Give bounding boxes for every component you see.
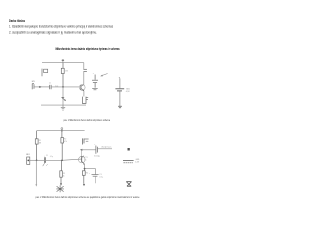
capacitor C1b	[44, 157, 45, 163]
resistor R2b	[61, 131, 64, 161]
svg-text:R4: R4	[86, 173, 88, 175]
svg-text:2. susipažinti su analoginiais: 2. susipažinti su analoginiais signalais…	[9, 30, 97, 34]
arrowhead input 1	[39, 86, 41, 88]
mic branch end arrow	[35, 184, 37, 186]
svg-text:pav. 2 Mikrofoninio žemo dažni: pav. 2 Mikrofoninio žemo dažnio stiprint…	[36, 196, 141, 199]
transistor VT1	[79, 85, 85, 91]
svg-text:+: +	[89, 173, 90, 175]
capacitor C3 series	[96, 146, 98, 154]
junction base node 1	[62, 86, 64, 88]
microphone MK1b dot	[27, 160, 29, 162]
wire top rail 2	[37, 130, 85, 132]
wire node to C1b	[37, 159, 45, 161]
resistor R4b	[82, 169, 85, 184]
svg-text:4,5V: 4,5V	[135, 161, 140, 163]
transistor VT1 collector stroke	[81, 85, 84, 87]
battery GB1b	[123, 160, 134, 162]
resistor R1b	[35, 131, 38, 161]
wire collector lead 1	[83, 63, 85, 85]
svg-text:1M: 1M	[39, 143, 42, 145]
wire collector to transistor 2	[81, 150, 83, 156]
wire base 2	[46, 159, 82, 160]
resistor R3b	[60, 160, 63, 184]
headphones BF1	[82, 97, 88, 104]
microphone MK1b	[27, 157, 30, 164]
svg-text:100µ: 100µ	[99, 176, 103, 178]
transistor VT1 emitter arrow	[83, 90, 85, 92]
svg-text:0,1µ: 0,1µ	[50, 156, 53, 158]
svg-text:GB1: GB1	[126, 88, 130, 90]
diode element D1	[61, 97, 65, 100]
svg-text:1k: 1k	[63, 176, 65, 178]
junction rail2 terminal	[61, 130, 63, 132]
wire terminal tick 2	[61, 130, 63, 131]
svg-text:C1: C1	[46, 155, 48, 157]
svg-text:išėjimas: išėjimas	[101, 146, 111, 148]
R3b arrowhead down	[60, 183, 62, 185]
symbol P crystal element	[42, 69, 48, 77]
transistor VT1b emitter stroke	[82, 162, 84, 164]
terminal circle above rail 2	[61, 128, 63, 130]
wire base to ground 1	[62, 87, 64, 105]
resistor R1	[61, 63, 64, 87]
transistor VT1 base bar	[80, 85, 82, 90]
battery GB1	[115, 78, 124, 106]
junction node mid 2	[61, 159, 63, 161]
svg-text:Mikrofoninio žemo dažnio stipr: Mikrofoninio žemo dažnio stiprintuvo tyr…	[56, 47, 120, 51]
svg-text:+: +	[93, 73, 95, 75]
collector series capacitor 1	[83, 69, 87, 71]
transistor VT1b emitter arrow	[83, 163, 85, 165]
wire base 1	[51, 86, 79, 88]
battery GB1b plus mark	[128, 148, 130, 151]
transistor VT1b	[79, 156, 86, 163]
transistor VT1 emitter stroke	[81, 89, 84, 91]
wire bottom rail 1	[41, 104, 86, 106]
svg-text:Darbo tikslas: Darbo tikslas	[9, 19, 25, 23]
svg-text:BC: BC	[84, 159, 87, 161]
wire collector 2	[81, 149, 96, 151]
microphone MK1	[32, 84, 34, 90]
emitter branch arrowhead	[83, 184, 85, 186]
svg-text:pav. 1 Mikrofoninio žemo dažni: pav. 1 Mikrofoninio žemo dažnio stiprint…	[64, 119, 111, 122]
node +V terminal dot	[62, 59, 65, 61]
collector wire arrowhead 2	[80, 149, 82, 151]
svg-text:1. Išsiaiškinti vienpakopio tr: 1. Išsiaiškinti vienpakopio tranzistorin…	[9, 24, 113, 28]
capacitor C1	[50, 85, 51, 89]
svg-text:47k: 47k	[64, 141, 67, 143]
wire input 1	[34, 86, 49, 88]
capacitor C2b	[82, 138, 88, 144]
svg-text:+: +	[44, 155, 45, 157]
junction base node 2	[36, 159, 38, 161]
svg-text:M1: M1	[32, 81, 35, 83]
svg-text:100µ: 100µ	[94, 156, 100, 158]
capacitor C4	[92, 175, 99, 177]
output arrowhead 1	[100, 75, 103, 77]
svg-text:4,5V: 4,5V	[126, 91, 131, 93]
wire mic to node 2	[30, 159, 37, 161]
svg-text:MK1: MK1	[26, 154, 30, 156]
wire C4 down	[94, 177, 96, 184]
svg-text:R3: R3	[63, 173, 65, 175]
wire emitter to C4	[85, 169, 96, 175]
wire emitter 1	[83, 91, 85, 97]
ground battery 1	[118, 106, 122, 108]
wire top rail 1	[42, 62, 84, 64]
wire emitter 2	[84, 164, 86, 168]
junction emitter node 2	[84, 168, 86, 170]
input slash tail	[46, 164, 48, 165]
star ground symbol	[56, 185, 64, 192]
chassis ground X symbol	[126, 182, 131, 187]
diode D1 arrow blob	[64, 99, 66, 101]
wire +V tick	[62, 61, 64, 63]
output arrow 1	[101, 74, 107, 76]
input slash arrowhead 2	[44, 161, 46, 163]
transistor VT1b base bar	[81, 156, 83, 162]
transistor VT1b collector stroke	[82, 156, 84, 158]
wire output 2	[98, 148, 112, 150]
capacitor C2	[92, 75, 98, 90]
svg-text:C1: C1	[49, 83, 51, 85]
input slash arrow 2	[43, 162, 46, 166]
ground 1	[61, 105, 65, 110]
svg-text:+: +	[94, 144, 95, 146]
wire mic branch down	[35, 160, 37, 184]
svg-text:1M: 1M	[65, 70, 68, 72]
